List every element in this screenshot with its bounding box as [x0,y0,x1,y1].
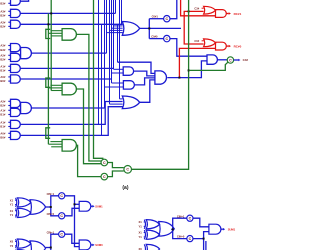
wire red2 or-to-and [215,42,218,44]
wire green branch to C4 circle [189,62,228,70]
svg-text:X1: X1 [10,209,14,213]
wire BC3 to AND2 [65,234,79,243]
svg-text:C: C [60,233,63,237]
svg-text:B1#: B1# [0,113,5,117]
svg-text:CIN=1: CIN=1 [47,192,55,196]
svg-text:X1: X1 [139,231,143,235]
svg-text:C0#0: C0#0 [151,35,158,39]
wire vertical x149.3 [148,19,150,39]
svg-text:B0#: B0# [0,136,5,140]
OR gate S1c [30,200,46,215]
AND gate GREEN3 [62,140,76,152]
wire stub bigOR in4 [110,29,123,31]
AND gate G4 (inputs A3#,B3#) [0,44,20,52]
label R1 in0 [139,220,146,224]
label G3 red1 [194,7,203,11]
svg-text:RC#0: RC#0 [234,44,242,48]
AND gate G7 (inputs A0#,B0#) [0,75,20,83]
wire stub bigOR in3 [112,27,123,29]
bus wire x111.5 [112,0,124,83]
wire R1 output split [171,218,187,238]
caption (a) [122,185,128,191]
label R1 in1 [139,225,146,229]
wire green gate 1 inputs [48,31,62,36]
wire red1 output arrow [226,12,231,15]
label CIN1 bl [47,192,55,196]
junction dot g x51 [50,12,52,14]
wire red vertical from top to cluster1 AND [181,0,216,16]
AND gate GREEN1 [62,29,76,41]
label CIN1 br [177,214,185,218]
label CIN1 bl2 [47,230,55,234]
wire S2 output split [46,234,59,250]
label R1 in2 [139,231,146,235]
svg-text:B3#: B3# [0,48,5,52]
svg-text:C: C [103,161,106,165]
bus wire x101.5 [101,24,103,135]
wire G1 output to top edge [20,0,28,1]
svg-text:CIN=0: CIN=0 [177,235,185,239]
svg-text:Y1: Y1 [10,203,14,207]
wire BIG1 output y53.1 [31,52,106,54]
wire red1 or-to-and [215,9,218,11]
AND gate G6 (inputs A1#,B1#) [0,64,20,72]
bus wire x117.5 [117,24,119,62]
svg-text:SUM1: SUM1 [228,227,236,231]
wire green gate 2 inputs [48,85,62,90]
svg-text:C0#: C0# [194,39,199,43]
label C0#0 [151,35,158,39]
bus wire x104.5 [104,0,106,108]
bus wire x113.5 [114,0,124,69]
wire green1 output down to circle D1 [76,34,101,161]
AND gate G8 (inputs A2#,B2#) [0,99,20,107]
junction dot g x48 [47,23,49,25]
AND gate GREEN2 [62,83,76,95]
AND gate G1 (inputs A3#,B3#) [0,0,20,5]
label C0#1 [152,15,159,19]
wire green bracket 3 [46,128,50,139]
svg-text:C: C [229,58,232,62]
wire E output to x188.6 vertical [132,0,189,169]
wire G10 output y124.4 with hook up to OR-C [20,102,122,125]
XOR gate R1b [144,230,159,239]
svg-text:Y1: Y1 [10,213,14,217]
svg-text:C: C [103,175,106,179]
wire G2 output y13.4 [20,12,115,14]
node circle RC2 [187,236,193,242]
wire green gate 3 inputs [48,142,62,147]
bus wire x106.5 [106,0,108,53]
label CIN0 br [177,235,185,239]
AND gate RED2b [216,42,227,50]
wire circle CB to RM in1 [170,39,207,57]
svg-text:C: C [165,37,168,41]
wire RC2 to ANDR [193,232,209,250]
wire green vertical x48.4 [47,13,49,144]
OR gate RED1 [204,6,216,14]
AND gate BIG1 (combines G4,G5) [21,48,32,59]
svg-text:A3#: A3# [0,0,5,1]
node circle D2 [101,173,108,180]
wire RM output to C4 circle [217,59,227,61]
svg-text:Y1: Y1 [139,235,143,239]
svg-text:C: C [165,17,168,21]
junction dot main line [148,27,150,29]
node circle BC2 [59,213,65,219]
svg-text:SUM0: SUM0 [95,243,103,247]
svg-text:X1: X1 [10,198,14,202]
wire BC2 up to AND1 [65,208,79,216]
wire green3 output down to circle D2 [76,145,101,176]
svg-text:C0#1: C0#1 [152,15,159,19]
AND gate G5 (inputs A2#,B2#) [0,53,20,61]
wire SUMR arrow [221,228,225,231]
XOR gate S1a [16,198,31,207]
bus wire x98.5 [98,0,100,124]
node circle BC1 [59,193,65,199]
label R1 in3 [139,235,146,239]
AND gate SUMR [209,224,221,234]
wire RC1 to ANDR [193,218,209,227]
AND gate A (middle) [123,67,133,75]
wire red2 output arrow [226,45,231,48]
OR gate RED2 [204,39,216,47]
bus wire x121.5 [121,0,123,24]
XOR gate S2a [16,239,31,248]
wire BIG2 output y108 [31,107,104,109]
svg-text:A2#: A2# [0,99,5,103]
wire branch to circle CB [149,38,163,40]
AND gate RED1b [216,10,227,18]
wire SUM0 arrow [91,244,95,247]
label S1 in3 [10,213,17,217]
wire x118.5 feed to BA in1 [118,62,155,73]
label C0 red2 [194,39,203,43]
label R2 partial [139,247,143,250]
wire B output to BA [134,78,155,85]
XOR gate S1b [16,208,31,217]
svg-text:B0#: B0# [0,79,5,83]
OR gate S2c [30,241,46,250]
node circle E [124,166,132,174]
svg-text:B2#: B2# [0,25,5,29]
XOR gate R1a [144,220,159,229]
wire stub A in2 [112,72,124,74]
wire red cluster1 OR input [184,11,203,44]
svg-text:C: C [126,168,129,172]
wire G3 output y24.3 into big OR [20,23,122,25]
wire bigOR output y28.4 [140,27,181,29]
AND gate BIG2 (combines G8,G9) [21,102,32,113]
XOR gate R2a partial [144,244,159,250]
AND gate G11 (inputs A0#,B0#) [0,131,20,139]
AND gate G2 (inputs A3#,B3#) [0,9,20,17]
node circle CA [164,16,170,22]
svg-text:B2#: B2# [0,104,5,108]
svg-text:A1#: A1# [0,64,5,68]
wire G7 output y79 [20,78,111,80]
label C4# [243,58,249,62]
svg-text:A3#: A3# [0,44,5,48]
svg-text:B2#: B2# [0,58,5,62]
wire D1 to E [108,163,124,168]
wire G6 output y68.4 [20,67,113,69]
label RC#0 [234,44,242,48]
svg-text:A3#: A3# [0,9,5,13]
svg-text:CIN=1: CIN=1 [177,214,185,218]
bus wire x109.5 [110,0,123,104]
svg-text:B1#: B1# [0,125,5,129]
svg-text:X1: X1 [139,220,143,224]
node circle RC1 [187,215,193,221]
label SUM1 bl [95,205,103,209]
svg-text:Y1: Y1 [139,225,143,229]
wire stub bigOR in2 [114,25,123,27]
wire C4 output arrow [234,59,241,62]
svg-text:C: C [60,194,63,198]
wire stub bigOR in5 [107,32,123,34]
wire G11 output y135.4 with hook up to OR-C [20,107,122,136]
label S1 in0 [10,198,17,202]
AND gate G3 (inputs A2#,B2#) [0,20,20,28]
bus wire x119.5 [120,0,123,99]
svg-text:A0#: A0# [0,75,5,79]
wire circle CA right to top edge [170,0,177,19]
svg-text:A1#: A1# [0,108,5,112]
label S2 in0 [10,240,17,244]
wire C output to BA [140,80,155,102]
svg-text:C: C [189,217,192,221]
svg-text:A0#: A0# [0,131,5,135]
wire stub B in2 [105,86,124,88]
svg-text:C: C [189,237,192,241]
svg-text:A2#: A2# [0,53,5,57]
label RC#1 [234,12,242,16]
wire green bracket 1 [46,29,50,38]
wire red from BA output up [179,48,215,77]
label S2 in1 [10,244,17,248]
bus wire x115.5 [115,0,117,13]
wire green vertical x51.2 [50,0,52,91]
junction dot red-green [188,10,190,12]
svg-text:B1#: B1# [0,69,5,73]
wire green vertical x93.5 from top [94,0,103,159]
wire BC1 long down to AND2 [65,196,79,247]
wire green2 output down to circle D1 [76,89,101,164]
AND gate B (middle) [123,81,134,89]
OR gate C (middle) [122,96,139,109]
svg-text:CIN=1: CIN=1 [47,230,55,234]
wire green bracket 2 [46,78,50,87]
svg-text:SUM1: SUM1 [95,205,103,209]
svg-text:Y0: Y0 [10,244,14,248]
junction dot red-blue [178,77,180,79]
node circle C4 [227,57,233,63]
svg-text:C: C [60,214,63,218]
AND gate SUM0 left [79,240,91,250]
svg-text:X0: X0 [10,240,14,244]
svg-text:(a): (a) [122,185,128,191]
OR gate R1c [159,222,175,237]
svg-text:B3#: B3# [0,1,5,5]
label SUM0 bl [95,243,103,247]
node circle D1 [101,159,108,166]
AND gate G10 (inputs A1#,B1#) [0,120,20,128]
node circle BC3 [59,231,65,237]
svg-text:A2#: A2# [0,20,5,24]
wire branch to circle CA [149,18,163,20]
AND gate RM (right mid) [207,55,217,64]
label SUM1 br [228,227,236,231]
svg-text:C3#: C3# [194,7,199,11]
label CIN0 bl [47,212,55,216]
wire A output to BA [134,71,155,76]
AND gate G9 (inputs A1#,B1#) [0,108,20,116]
node circle CB [164,35,170,41]
svg-text:CIN=0: CIN=0 [47,212,55,216]
OR gate BIGOR (top middle) [122,22,139,36]
wire S1 output split [46,196,59,216]
label S1 in1 [10,203,17,207]
AND gate SUM1 left [79,201,91,211]
wire BA output to RM in2 [167,61,207,78]
svg-text:C4#: C4# [243,58,249,62]
svg-text:RC#1: RC#1 [234,12,242,16]
wire SUM1 arrow [91,205,95,208]
svg-text:A1#: A1# [0,120,5,124]
wire D2 to E [108,171,124,177]
junction dot green x188 [188,69,190,71]
AND gate BA (4-input right) [155,71,167,84]
svg-text:B3#: B3# [0,14,5,18]
label S1 in2 [10,209,17,213]
